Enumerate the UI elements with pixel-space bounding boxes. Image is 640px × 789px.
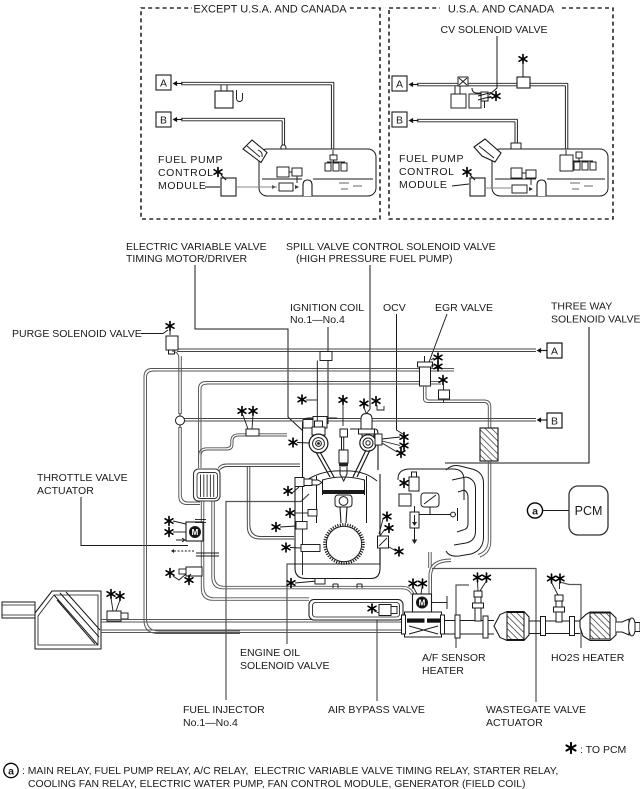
fuel tank (left box) (259, 149, 376, 196)
evvt actuator on cam (303, 420, 313, 429)
svg-text:(HIGH PRESSURE FUEL PUMP): (HIGH PRESSURE FUEL PUMP) (296, 253, 453, 265)
ignition coil No.1 (309, 421, 328, 453)
node A box (left) (156, 75, 183, 90)
filler neck (right) (474, 139, 501, 162)
leader EGR valve (429, 314, 447, 362)
leader OCV (397, 314, 407, 436)
inner intake frame (199, 382, 442, 464)
dashed enclosure U.S.A. AND CANADA (389, 8, 613, 219)
pressure sensor lower left (186, 567, 202, 576)
svg-text:ACTUATOR: ACTUATOR (486, 717, 543, 729)
svg-text:B: B (396, 115, 403, 127)
label FUEL PUMP CONTROL MODULE (left) (158, 154, 223, 192)
svg-text:SPILL VALVE CONTROL SOLENOID V: SPILL VALVE CONTROL SOLENOID VALVE (286, 241, 496, 253)
engine block sides (295, 474, 380, 579)
spark plug (339, 429, 348, 481)
wire EGR pipe (424, 386, 491, 428)
fuel level line (262, 178, 302, 180)
wire purge pipe down (172, 351, 200, 505)
wire module to pump (right) (485, 187, 511, 189)
svg-text:No.1—No.4: No.1—No.4 (183, 717, 238, 729)
node B box (main) (537, 417, 547, 422)
svg-text:No.1—No.4: No.1—No.4 (290, 314, 345, 326)
catalytic converter 2 (580, 612, 616, 641)
svg-text:CV SOLENOID VALVE: CV SOLENOID VALVE (441, 24, 548, 36)
air bypass valve body (402, 612, 445, 637)
leader throttle valve actuator (81, 497, 188, 546)
asterisk injector rail (339, 396, 347, 405)
wire wastegate hose up (429, 552, 432, 568)
svg-text:TIMING MOTOR/DRIVER: TIMING MOTOR/DRIVER (126, 253, 248, 265)
asterisks coil cluster left (289, 438, 297, 447)
leader engine oil solenoid valve (287, 549, 380, 644)
svg-text:SOLENOID VALVE: SOLENOID VALVE (551, 314, 640, 326)
asterisk pair spill (360, 399, 368, 408)
throttle body (194, 469, 221, 501)
CV solenoid valve (478, 92, 491, 108)
leader evvt motor/driver (195, 265, 303, 431)
engine oil solenoid valve (on block) (378, 536, 389, 548)
intake plenum left wall (218, 464, 300, 539)
wire throttle outlet pipe right (212, 501, 414, 595)
svg-text:FUEL INJECTOR: FUEL INJECTOR (183, 704, 265, 716)
PCM box (569, 486, 608, 535)
leader wastegate valve actuator (432, 569, 536, 703)
svg-text:EXCEPT U.S.A. AND CANADA: EXCEPT U.S.A. AND CANADA (193, 4, 347, 16)
asterisk fan right of coil2 (375, 434, 382, 445)
A/F sensor (473, 591, 484, 621)
air cleaner inlet snout (2, 602, 35, 618)
oil flow valve with arrow (410, 506, 419, 544)
svg-text:THREE WAY: THREE WAY (551, 301, 612, 313)
svg-text:MODULE: MODULE (158, 180, 207, 192)
exhaust pipe segment 1 (445, 615, 494, 638)
wire turbo downpipe (429, 559, 451, 610)
wire hatch to turbo (478, 461, 491, 557)
node B box (right) (392, 112, 419, 127)
valve stem lines left (316, 450, 370, 477)
oil solenoid valve upper (409, 472, 419, 491)
vent hook pipe (237, 90, 243, 102)
purge solenoid valve (166, 322, 174, 331)
leader ignition coil (327, 327, 329, 424)
air cleaner box (35, 591, 101, 649)
wastegate actuator pod (419, 493, 458, 521)
turbocharger housing (446, 466, 484, 557)
svg-text:: MAIN RELAY, FUEL PUMP RELAY,: : MAIN RELAY, FUEL PUMP RELAY, A/C RELAY… (22, 766, 558, 777)
node A box (main) (537, 348, 547, 353)
svg-text:COOLING FAN RELAY, ELECTRIC WA: COOLING FAN RELAY, ELECTRIC WATER PUMP, … (28, 779, 525, 789)
combustion chamber dome (304, 471, 377, 482)
egr backpressure box (439, 390, 450, 399)
svg-text:ELECTRIC VARIABLE VALVE: ELECTRIC VARIABLE VALVE (126, 241, 267, 253)
map sensor fitting on duct (246, 429, 259, 436)
label FUEL PUMP CONTROL MODULE (right) (399, 153, 464, 191)
leader air bypass valve (376, 614, 378, 701)
HO2S sensor (554, 595, 565, 622)
svg-text:ENGINE OIL: ENGINE OIL (240, 647, 300, 659)
wire B (left box) (181, 118, 286, 167)
wire module to pump (236, 186, 277, 188)
node a circle (527, 503, 542, 518)
svg-text:B: B (551, 416, 558, 428)
filler neck (243, 140, 267, 163)
svg-text:M: M (419, 599, 426, 608)
hatched block (480, 428, 498, 461)
fittings on throttle pipe (195, 520, 219, 557)
tank saddle notch (right) (537, 180, 546, 196)
leader three way solenoid valve (445, 327, 589, 463)
svg-text:CONTROL: CONTROL (158, 167, 214, 179)
svg-text:OCV: OCV (383, 302, 406, 314)
step air duct (199, 434, 287, 468)
node B box (left) (156, 112, 183, 127)
wire rail A (177, 349, 536, 352)
svg-text:HO2S HEATER: HO2S HEATER (551, 652, 625, 664)
leader CV solenoid valve (489, 36, 497, 95)
svg-text:a: a (532, 505, 538, 517)
svg-text:WASTEGATE VALVE: WASTEGATE VALVE (486, 704, 586, 716)
connecting rod (340, 507, 341, 523)
wire A rail (right box) (417, 83, 568, 153)
svg-text:CONTROL: CONTROL (399, 166, 455, 178)
svg-text:PURGE SOLENOID VALVE: PURGE SOLENOID VALVE (12, 328, 142, 340)
canister pump cluster (right chamber) (560, 150, 596, 171)
cylinder walls (316, 476, 318, 523)
wire B (right box) (417, 119, 521, 168)
air cleaner element diagonals (54, 592, 100, 645)
throttle valve actuator module M (186, 522, 203, 541)
wire throttle outlet pipe (201, 501, 309, 600)
svg-text:FUEL PUMP: FUEL PUMP (158, 154, 223, 166)
exhaust pipe segment 2 (529, 617, 580, 636)
wire rail B (180, 419, 536, 422)
svg-text:a: a (8, 765, 14, 777)
wire intake pipe upper (101, 620, 405, 633)
dashed enclosure EXCEPT U.S.A. AND CANADA (141, 8, 380, 219)
tail pipe (616, 618, 640, 636)
svg-text:: TO PCM: : TO PCM (580, 744, 626, 756)
in-tank pump module (left box) (277, 167, 302, 191)
catalytic converter 1 (494, 612, 529, 641)
canisters (right box) (451, 77, 482, 108)
air bypass valve motor M (413, 594, 432, 612)
svg-text:A: A (551, 346, 558, 358)
svg-text:PCM: PCM (575, 504, 603, 518)
wire A rail (left box) (181, 82, 334, 152)
leader spill valve (366, 265, 370, 414)
EGR valve (418, 356, 433, 386)
boost sensor on intercooler (379, 605, 391, 616)
svg-text:M: M (192, 528, 199, 537)
svg-text:SOLENOID VALVE: SOLENOID VALVE (240, 660, 329, 672)
piston (323, 477, 365, 495)
svg-text:ACTUATOR: ACTUATOR (37, 485, 94, 497)
svg-text:MODULE: MODULE (399, 179, 448, 191)
fuel injector (295, 478, 322, 487)
spill valve (high pressure fuel pump) (359, 414, 375, 435)
fittings engine left flank (286, 509, 294, 518)
oil drain (287, 579, 295, 588)
jet pump assembly (right chamber) (325, 150, 347, 171)
leader purge solenoid valve (141, 330, 168, 334)
fuel pump control module box (left) (221, 178, 236, 196)
svg-text:A: A (396, 79, 403, 91)
svg-text:THROTTLE VALVE: THROTTLE VALVE (37, 472, 128, 484)
svg-text:A/F SENSOR: A/F SENSOR (422, 652, 486, 664)
outer intake frame (144, 369, 454, 634)
svg-text:A: A (160, 78, 167, 90)
canister (left box) (215, 91, 233, 108)
node a legend circle (4, 763, 18, 777)
MAF sensor (107, 611, 121, 621)
svg-text:EGR VALVE: EGR VALVE (435, 302, 493, 314)
tank saddle notch (303, 180, 312, 196)
leader A/F sensor heater (456, 585, 469, 648)
svg-text:IGNITION COIL: IGNITION COIL (290, 302, 364, 314)
in-tank pump module (right box) (511, 168, 536, 193)
svg-text:HEATER: HEATER (422, 665, 464, 677)
fuel tank (right box) (492, 149, 608, 196)
svg-text:B: B (160, 115, 167, 127)
check valve box on A line (517, 77, 530, 88)
flywheel toothed ring (325, 525, 364, 564)
ignition coil No.2 (360, 429, 376, 451)
node A box (right) (392, 76, 419, 91)
note to PCM (566, 743, 575, 753)
svg-text:AIR BYPASS VALVE: AIR BYPASS VALVE (328, 704, 425, 716)
leader fuel injector (226, 494, 309, 700)
intercooler (309, 600, 403, 621)
oil filter square (399, 494, 411, 506)
svg-text:FUEL PUMP: FUEL PUMP (399, 153, 464, 165)
engine head outline (303, 418, 379, 481)
engine cam cover right outline (398, 469, 464, 500)
leader HO2S heater (560, 582, 581, 648)
fuel pump control module box (right) (470, 178, 485, 196)
wrist pin (335, 495, 352, 507)
fuel level marks (339, 183, 362, 189)
svg-text:U.S.A. AND CANADA: U.S.A. AND CANADA (448, 4, 555, 16)
inline check valve on purge pipe (176, 416, 185, 425)
